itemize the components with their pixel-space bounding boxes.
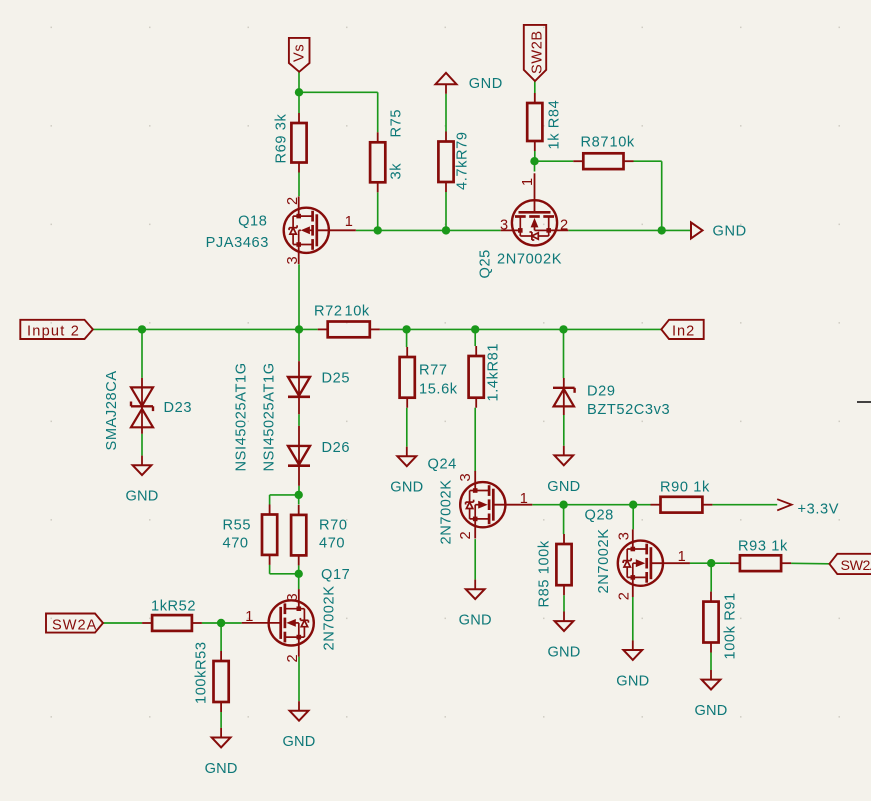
svg-text:R87: R87 xyxy=(581,135,610,151)
svg-text:NSI45025AT1G: NSI45025AT1G xyxy=(233,362,249,471)
svg-text:GND: GND xyxy=(547,479,580,495)
svg-text:2: 2 xyxy=(560,218,569,234)
svg-text:2: 2 xyxy=(285,196,301,205)
svg-text:3: 3 xyxy=(458,473,474,482)
svg-text:2N7002K: 2N7002K xyxy=(596,528,612,593)
svg-text:SMAJ28CA: SMAJ28CA xyxy=(104,370,120,450)
svg-text:Q28: Q28 xyxy=(585,508,614,524)
svg-text:2: 2 xyxy=(617,591,633,600)
svg-text:SW2A: SW2A xyxy=(841,558,871,574)
svg-text:BZT52C3v3: BZT52C3v3 xyxy=(587,402,670,418)
svg-text:1: 1 xyxy=(678,549,687,565)
svg-text:GND: GND xyxy=(469,76,503,92)
svg-text:1: 1 xyxy=(520,491,529,507)
svg-text:D25: D25 xyxy=(322,371,351,387)
svg-text:GND: GND xyxy=(205,761,238,777)
svg-text:D23: D23 xyxy=(164,400,193,416)
svg-text:Q17: Q17 xyxy=(321,567,350,583)
svg-text:4.7kR79: 4.7kR79 xyxy=(455,131,471,190)
svg-text:3: 3 xyxy=(500,218,509,234)
svg-text:1.4kR81: 1.4kR81 xyxy=(486,343,502,402)
svg-text:2N7002K: 2N7002K xyxy=(438,479,454,544)
svg-text:1k: 1k xyxy=(151,599,168,615)
svg-text:GND: GND xyxy=(390,480,423,496)
svg-text:GND: GND xyxy=(282,734,315,750)
svg-text:2: 2 xyxy=(285,654,301,663)
svg-text:15.6k: 15.6k xyxy=(419,382,458,398)
svg-text:SW2B: SW2B xyxy=(530,30,546,74)
svg-text:NSI45025AT1G: NSI45025AT1G xyxy=(261,362,277,471)
svg-text:Q25: Q25 xyxy=(478,249,494,278)
svg-text:Q18: Q18 xyxy=(238,214,267,230)
svg-text:2: 2 xyxy=(458,531,474,540)
svg-text:R69 3k: R69 3k xyxy=(274,114,290,164)
svg-text:D26: D26 xyxy=(322,440,351,456)
svg-text:R93 1k: R93 1k xyxy=(738,539,788,555)
svg-text:R85 100k: R85 100k xyxy=(537,540,553,607)
svg-text:470: 470 xyxy=(223,536,249,552)
svg-text:Vs: Vs xyxy=(292,44,308,62)
svg-text:2N7002K: 2N7002K xyxy=(497,252,562,268)
svg-text:GND: GND xyxy=(713,224,747,240)
svg-text:GND: GND xyxy=(125,489,158,505)
svg-text:3k: 3k xyxy=(389,163,405,180)
svg-text:1k R84: 1k R84 xyxy=(547,100,563,150)
svg-text:470: 470 xyxy=(319,536,345,552)
svg-text:SW2A: SW2A xyxy=(52,618,97,634)
svg-text:R52: R52 xyxy=(168,599,197,615)
svg-text:In2: In2 xyxy=(672,324,695,340)
svg-text:Q24: Q24 xyxy=(428,457,457,473)
svg-text:R77: R77 xyxy=(419,363,448,379)
svg-text:3: 3 xyxy=(285,256,301,265)
svg-text:PJA3463: PJA3463 xyxy=(206,235,269,251)
svg-text:GND: GND xyxy=(547,645,580,661)
svg-text:1: 1 xyxy=(520,177,536,186)
svg-text:R55: R55 xyxy=(223,518,252,534)
svg-text:R90 1k: R90 1k xyxy=(660,480,710,496)
svg-text:2N7002K: 2N7002K xyxy=(322,585,338,650)
svg-text:100k R91: 100k R91 xyxy=(723,592,739,659)
svg-text:R75: R75 xyxy=(389,109,405,138)
svg-text:3: 3 xyxy=(285,593,301,602)
svg-text:1: 1 xyxy=(245,609,254,625)
svg-text:10k: 10k xyxy=(345,304,370,320)
svg-text:100kR53: 100kR53 xyxy=(194,641,210,704)
svg-text:D29: D29 xyxy=(587,384,616,400)
svg-text:3: 3 xyxy=(617,531,633,540)
svg-text:GND: GND xyxy=(459,613,492,629)
svg-text:R72: R72 xyxy=(314,304,343,320)
svg-text:GND: GND xyxy=(616,673,649,689)
svg-text:R70: R70 xyxy=(319,518,348,534)
svg-text:1: 1 xyxy=(345,214,354,230)
svg-text:+3.3V: +3.3V xyxy=(798,502,840,518)
svg-text:GND: GND xyxy=(694,703,727,719)
svg-text:Input 2: Input 2 xyxy=(27,324,80,340)
svg-text:10k: 10k xyxy=(610,135,635,151)
